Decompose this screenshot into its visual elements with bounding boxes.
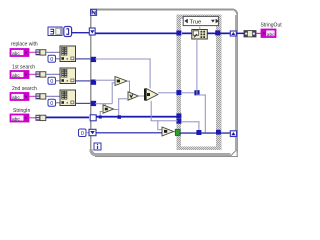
svg-text:abc: abc xyxy=(267,32,275,38)
terminal 2nd search xyxy=(11,93,29,101)
wire: terminal2 to converter2 xyxy=(29,74,36,75)
wire: terminal3 to converter3 xyxy=(29,96,36,97)
wire: case to right shift register xyxy=(220,33,230,35)
array init constant 3 xyxy=(48,27,62,36)
wire boolean T4 to selector xyxy=(173,131,176,132)
wire: converter2 to box2 xyxy=(46,74,60,75)
case tunnel (main line, left) xyxy=(176,31,181,36)
wire: row1 (replace-with bytes) into loop xyxy=(95,59,151,60)
wire: Q3 output to vertical xyxy=(113,109,119,110)
svg-text:abc: abc xyxy=(12,51,20,57)
svg-text:2nd search: 2nd search xyxy=(12,86,37,92)
i terminal (iteration) xyxy=(94,143,101,150)
wire: tunnel to replace array subset xyxy=(182,33,192,35)
wire: loop to byte array to string xyxy=(236,33,244,35)
converter icon 4 xyxy=(36,115,46,121)
wire: row3 (2nd search) into loop xyxy=(95,103,112,104)
wire: StringIn byte line inside loop (thick) xyxy=(96,116,177,118)
wire: 0 to box2 xyxy=(56,80,61,81)
wire: converter3 to box3 xyxy=(46,96,60,97)
stub above replace array subset xyxy=(199,27,200,30)
N terminal (loop count) xyxy=(91,9,97,15)
wire: 2nd-search byte up to comparator Q1 lower input xyxy=(112,82,113,104)
left shift register (bottom) xyxy=(89,129,96,135)
constant 0 (row3) xyxy=(48,99,56,107)
wire: StringIn terminal to converter4 xyxy=(29,117,36,118)
case tunnel (index wire) xyxy=(176,90,181,95)
wire: shift register to comparator Q4 (counter line) xyxy=(97,132,163,133)
tunnel row3 xyxy=(91,101,96,106)
wire: 0 to box3 xyxy=(56,102,61,103)
comparator Q2 (or) xyxy=(128,92,139,100)
search function box 1 xyxy=(60,46,76,62)
svg-text:True: True xyxy=(190,19,202,25)
case selector label "True" xyxy=(183,16,219,25)
vertical wire from replace array subset down xyxy=(196,39,197,96)
comparator Q1 (equal?) xyxy=(115,77,127,86)
junction on index vertical xyxy=(194,90,199,95)
wire: box1 output to loop tunnel (blue) xyxy=(76,58,91,59)
tunnel row1 xyxy=(91,57,96,62)
wire: bottom line inside case xyxy=(180,132,231,133)
auto-index tunnel StringIn xyxy=(90,115,96,121)
converter icon 3 xyxy=(36,93,46,99)
wire: converter1 to search box1 (blue) xyxy=(46,52,60,53)
case tunnel (select lower wire) xyxy=(176,119,181,124)
case tunnel (StringIn byte) xyxy=(176,113,181,118)
svg-text:abc: abc xyxy=(12,116,20,122)
junction bottom line at vertical xyxy=(196,130,201,135)
constant 0 (row2) xyxy=(48,77,56,85)
junction: branch to comparator Q4 xyxy=(157,120,158,129)
svg-text:abc: abc xyxy=(12,73,20,79)
converter icon 2 xyxy=(36,71,46,77)
right shift register (top) xyxy=(230,31,236,36)
left shift register (top) xyxy=(89,28,95,35)
wire vertical to select top xyxy=(150,59,151,89)
terminal StringIn xyxy=(11,115,29,123)
replace array subset U1 xyxy=(192,30,208,40)
vertical down to bottom line xyxy=(198,121,199,133)
terminal 1st search xyxy=(11,71,29,79)
right shift register (bottom) xyxy=(230,131,236,137)
wire: converter4 to loop (thick blue byte array) xyxy=(46,117,89,119)
wire: box2 output to tunnel xyxy=(76,80,91,81)
svg-text:StringOut: StringOut xyxy=(261,23,283,29)
wire: 0 to left shift register (bottom) xyxy=(86,132,89,133)
wire: Q2 to select xyxy=(138,96,144,97)
case tunnel (main line, right) xyxy=(215,30,220,35)
wire: box3 output to tunnel xyxy=(76,103,91,104)
comparator Q4 (and) xyxy=(162,127,174,136)
wire: select bottom down xyxy=(151,101,152,121)
wire: StringIn byte up to Q3 lower input xyxy=(100,111,101,117)
wire: row2 (1st search byte) to comparator xyxy=(95,80,115,81)
case tunnel (bottom line, right) xyxy=(216,130,221,135)
for loop xyxy=(89,9,239,158)
wire: replace array subset to right case tunnel xyxy=(207,33,216,35)
wire: inside case to vertical xyxy=(182,121,199,122)
wire: Q1 output down to comparator Q2 xyxy=(127,81,131,82)
svg-text:StringIn: StringIn xyxy=(13,108,30,114)
svg-text:abc: abc xyxy=(12,95,20,101)
wire: to StringOut (pink) xyxy=(256,33,262,34)
case structure xyxy=(177,15,222,150)
wire: down to case (element wire) xyxy=(151,120,178,121)
wire: terminal1 to converter1 (pink) xyxy=(29,52,36,53)
wire: 0 to search box1 xyxy=(56,58,61,59)
wire: select output to case xyxy=(158,92,177,93)
junction on StringIn line xyxy=(118,115,122,119)
comparator Q3 (equal?) xyxy=(103,105,114,113)
svg-text:1st search: 1st search xyxy=(12,64,35,70)
constant 0 (shift register init) xyxy=(79,129,87,137)
wire: tunnel to vertical xyxy=(182,92,197,93)
terminal replace with (string control) xyxy=(11,49,29,57)
stub down to comparator Q3 xyxy=(105,103,106,107)
tunnel row2 xyxy=(91,80,96,85)
wire: up to comparator Q2 lower input xyxy=(118,98,128,99)
converter icon 1 (string to byte array) xyxy=(36,49,46,55)
search function box 2 xyxy=(60,68,76,84)
terminal StringOut (indicator) xyxy=(262,30,276,38)
svg-text:replace with: replace with xyxy=(11,42,38,48)
byte array to string icon xyxy=(244,31,256,37)
vertical wire down to bottom line xyxy=(205,95,206,133)
svg-text:0: 0 xyxy=(81,131,84,137)
wire: elbow right at y=95 xyxy=(196,95,205,96)
wire: main array line (left SR to case tunnel) xyxy=(95,33,178,35)
search function box 3 xyxy=(60,90,76,106)
svg-text:0: 0 xyxy=(50,101,53,107)
build array node xyxy=(64,27,72,37)
select node xyxy=(144,89,158,101)
constant 0 (row1) xyxy=(48,55,56,63)
svg-text:0: 0 xyxy=(50,57,53,63)
junction on StringIn line (left) xyxy=(99,116,102,119)
vertical: Q3 output down to thick line xyxy=(118,98,119,117)
case selector tunnel (green) xyxy=(175,129,180,135)
wire: init to left shift register xyxy=(72,32,91,33)
svg-text:0: 0 xyxy=(50,79,53,85)
